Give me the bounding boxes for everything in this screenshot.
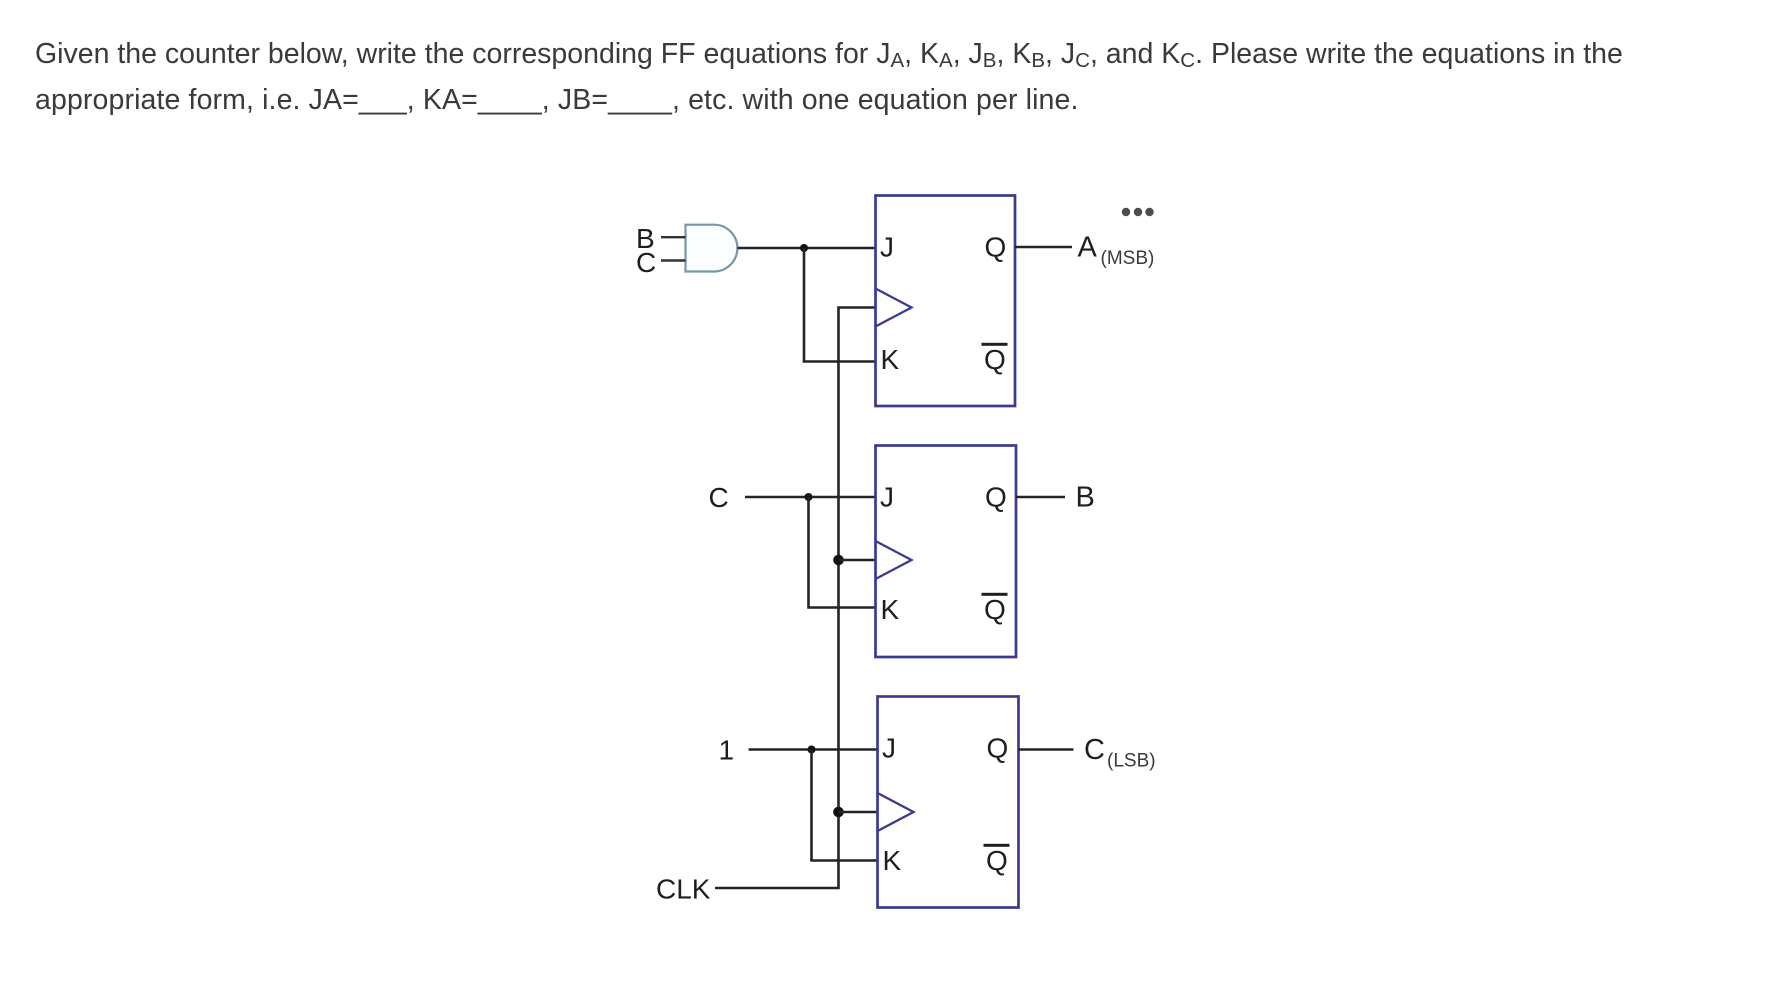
svg-text:(MSB): (MSB) [1101,248,1155,269]
junction node CLK to FF3 clock [833,807,844,818]
svg-text:Q: Q [984,344,1006,375]
svg-text:K: K [881,594,900,625]
FF2 clock triangle [876,541,912,579]
svg-text:1: 1 [719,734,735,765]
flip-flop FF3 (output C) [878,697,1019,908]
problem statement line 1 [35,40,1623,69]
flip-flop FF1 (output A) [876,196,1016,407]
svg-text:C: C [636,247,656,278]
junction node on FF3 J wire [808,746,816,754]
FF1 clock triangle [876,289,912,327]
wire branch to K of FF1 [804,248,876,362]
svg-text:J: J [882,733,896,764]
wire AND output to J of FF1 [737,247,875,250]
wire branch to K of FF2 [809,497,876,608]
AND input stub B [661,236,686,238]
wire FF2 Q to B [1016,496,1065,499]
svg-text:Q: Q [984,594,1006,625]
svg-text:J: J [880,232,894,263]
svg-text:B: B [1076,482,1095,514]
svg-text:Q: Q [986,845,1008,876]
flip-flop FF2 (output B) [876,446,1017,658]
junction node on FF1 J wire [800,244,808,252]
junction node on FF2 J wire [805,493,813,501]
wire branch to K of FF3 [812,750,878,861]
wire FF3 Q to C [1019,748,1074,751]
svg-text:K: K [881,344,900,375]
AND input stub C [661,259,686,261]
wire FF1 Q to A [1015,246,1072,249]
svg-text:(LSB): (LSB) [1107,751,1156,772]
wire CLK stub to FF3 clock [839,811,878,814]
wire CLK stub to FF2 clock [839,559,876,562]
svg-text:Q: Q [987,733,1009,764]
ellipsis dots [1122,208,1130,216]
wire C input to J of FF2 [745,496,876,499]
problem statement line 2 [35,86,1079,115]
svg-text:K: K [883,845,902,876]
svg-text:C: C [709,482,729,513]
svg-text:C: C [1084,734,1105,766]
CLK vertical wire [715,308,876,889]
junction node CLK to FF2 clock [833,555,844,566]
FF3 clock triangle [878,793,914,831]
AND gate U1 (inputs B,C) [686,225,738,272]
svg-text:Q: Q [985,482,1007,513]
svg-text:Q: Q [985,232,1007,263]
svg-text:A: A [1078,232,1098,264]
svg-text:CLK: CLK [656,873,711,904]
wire 1 input to J of FF3 [749,748,878,751]
svg-text:J: J [880,482,894,513]
